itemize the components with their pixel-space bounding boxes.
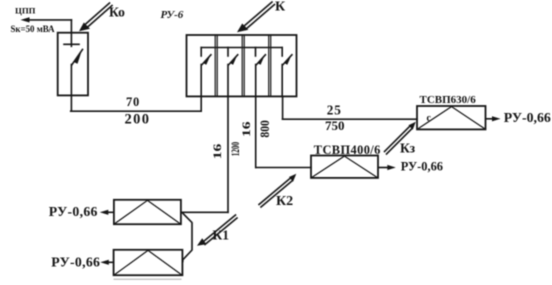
breaker QF4 blade [283, 55, 292, 65]
transformer ТСВП630/6 [417, 106, 486, 129]
svg-text:РУ-0,66: РУ-0,66 [51, 254, 100, 269]
arrow РУ-0,66 left top [100, 210, 114, 215]
feeder cell 4 down run [282, 96, 284, 119]
fault arrow Кз [385, 122, 416, 154]
arrow РУ-0,66 right top [486, 116, 501, 121]
breaker QF2 blade [228, 55, 237, 65]
svg-text:800: 800 [257, 120, 271, 137]
feeder wire cell 2 (16/1200) [227, 65, 229, 97]
wire to ТСВП400 horizontal [256, 167, 311, 169]
breaker QF1 blade [202, 55, 211, 65]
cell divider 2 [242, 35, 244, 96]
feeder wire cell 3 (16/800) [255, 65, 257, 97]
transformer ТСВП400/6 [311, 156, 378, 178]
fault arrow Ко [79, 3, 112, 31]
svg-text:с: с [427, 113, 432, 124]
feeder cell 3 down run [255, 96, 257, 167]
svg-text:Sк=50 мВА: Sк=50 мВА [11, 24, 56, 34]
wire 70/200 horizontal [71, 110, 202, 112]
wire 25/750 horizontal [283, 118, 417, 120]
arrow to ЦПП [21, 17, 72, 22]
feeder wire cell 4 (25/750) [281, 65, 283, 97]
breaker QF0 blade arrow [74, 52, 81, 64]
svg-text:РУ-6: РУ-6 [161, 9, 184, 21]
fault arrow К [237, 2, 275, 32]
svg-text:РУ-0,66: РУ-0,66 [49, 204, 98, 219]
wire to upper left transformer [182, 211, 229, 213]
svg-text:25: 25 [327, 102, 342, 117]
switchgear РУ-6 outer box [187, 35, 297, 96]
breaker QF3 blade [256, 55, 265, 65]
svg-text:16: 16 [240, 121, 253, 137]
breaker QF0 drop wire [70, 20, 72, 46]
fault arrow К1 [197, 215, 237, 246]
svg-text:70: 70 [126, 95, 140, 109]
riser to РУ-6 cell 1 [200, 96, 202, 111]
cell divider 3 [269, 35, 271, 96]
svg-text:16: 16 [212, 144, 225, 160]
svg-text:750: 750 [325, 118, 345, 133]
svg-text:К2: К2 [276, 194, 293, 209]
busbar 6kV [201, 47, 282, 49]
bypass wire to lower transformer [183, 213, 193, 262]
arrow РУ-0,66 left bottom [100, 260, 113, 265]
feeder wire cell 1 [200, 65, 202, 97]
arrow РУ-0,66 mid [378, 165, 396, 170]
svg-text:Ко: Ко [109, 4, 125, 19]
transformer upper left [114, 200, 181, 224]
svg-text:К1: К1 [213, 228, 230, 243]
transformer cell rect at ЦПП [58, 33, 88, 96]
svg-text:1200: 1200 [229, 142, 242, 156]
svg-text:200: 200 [125, 111, 151, 127]
breaker QF1 stub [200, 48, 202, 57]
feeder wire from ЦПП cell [70, 65, 72, 112]
breaker QF4 stub [281, 48, 283, 57]
svg-text:ЦПП: ЦПП [15, 5, 36, 15]
svg-text:РУ-0,66: РУ-0,66 [504, 110, 551, 125]
svg-text:РУ-0,66: РУ-0,66 [401, 160, 443, 174]
scan shadow under lower transformer [114, 278, 181, 280]
svg-text:К: К [275, 0, 286, 15]
transformer lower left [114, 250, 183, 275]
breaker QF2 stub [227, 48, 229, 57]
svg-text:Кз: Кз [400, 140, 416, 155]
breaker QF0 contact bar [64, 43, 79, 45]
breaker QF3 stub [255, 48, 257, 57]
svg-text:ТСВП630/6: ТСВП630/6 [420, 94, 477, 106]
cell divider 1 [215, 35, 217, 96]
breaker QF0 blade [72, 50, 83, 66]
feeder cell 2 down run [227, 96, 229, 212]
fault arrow К2 [259, 174, 296, 207]
